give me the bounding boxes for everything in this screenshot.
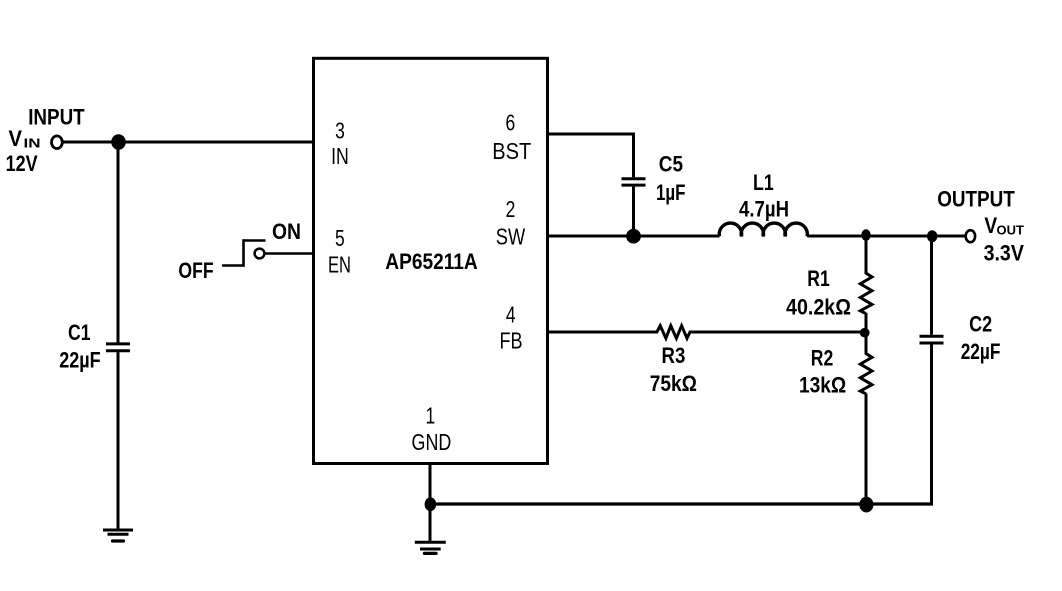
svg-text:GND: GND bbox=[412, 429, 452, 455]
switch S1 lever bbox=[222, 239, 266, 267]
resistor R2 bbox=[860, 332, 872, 504]
svg-text:L1: L1 bbox=[753, 170, 774, 195]
node INPUT VIN 12V label bbox=[6, 105, 85, 177]
C2 value label bbox=[961, 311, 1001, 364]
svg-text:IN: IN bbox=[331, 143, 349, 169]
C5 value label bbox=[656, 151, 686, 205]
resistor R3 bbox=[656, 326, 692, 339]
junction input/C1 bbox=[111, 134, 126, 150]
wire ground bus bbox=[430, 502, 933, 505]
svg-text:3: 3 bbox=[335, 117, 345, 143]
svg-text:BST: BST bbox=[492, 138, 531, 164]
pin 4 FB label bbox=[499, 302, 522, 354]
wire SW bbox=[548, 235, 720, 238]
junction C2 top bbox=[927, 230, 937, 242]
svg-text:22µF: 22µF bbox=[961, 339, 1001, 364]
svg-text:4: 4 bbox=[506, 302, 516, 328]
R1 value label bbox=[786, 266, 851, 320]
svg-text:V: V bbox=[9, 126, 23, 151]
node OUTPUT VOUT 3.3V label bbox=[937, 187, 1024, 266]
junction SW/C5 bbox=[626, 229, 641, 244]
capacitor C2 bbox=[920, 336, 944, 343]
svg-text:C5: C5 bbox=[659, 151, 683, 176]
wire C5 bottom to SW node bbox=[632, 187, 635, 236]
wire C2 top bbox=[930, 236, 933, 335]
wire EN bbox=[265, 252, 313, 255]
inductor L1 bbox=[719, 223, 807, 236]
wire input to pin IN bbox=[63, 141, 313, 144]
junction R2 bottom bbox=[859, 497, 873, 513]
C1 value label bbox=[59, 320, 100, 373]
wire BST bbox=[548, 133, 634, 178]
svg-text:R2: R2 bbox=[811, 345, 834, 370]
wire FB bbox=[548, 331, 657, 334]
svg-text:13kΩ: 13kΩ bbox=[799, 373, 846, 398]
svg-text:OUT: OUT bbox=[997, 223, 1025, 237]
wire GND pin down bbox=[429, 464, 432, 541]
svg-text:75kΩ: 75kΩ bbox=[650, 371, 697, 396]
svg-text:OFF: OFF bbox=[178, 258, 213, 283]
svg-text:C1: C1 bbox=[68, 320, 91, 345]
wire C1 bottom bbox=[117, 352, 120, 530]
ground (GND pin) bbox=[415, 542, 446, 553]
capacitor C1 bbox=[106, 344, 130, 351]
svg-text:V: V bbox=[984, 213, 997, 238]
svg-text:C2: C2 bbox=[969, 311, 992, 336]
svg-text:40.2kΩ: 40.2kΩ bbox=[786, 295, 851, 320]
capacitor C5 bbox=[622, 179, 646, 185]
svg-text:INPUT: INPUT bbox=[28, 105, 85, 130]
switch contact circle bbox=[255, 249, 265, 259]
wire R3 to FB node bbox=[691, 331, 866, 334]
input terminal bbox=[52, 136, 63, 149]
svg-text:EN: EN bbox=[328, 252, 351, 278]
pin 6 BST label bbox=[492, 109, 531, 164]
wire C2 bottom bbox=[930, 344, 933, 504]
svg-text:R1: R1 bbox=[807, 266, 830, 291]
svg-text:3.3V: 3.3V bbox=[984, 241, 1024, 266]
pin 1 GND label bbox=[412, 402, 452, 455]
svg-text:R3: R3 bbox=[662, 343, 686, 368]
svg-text:5: 5 bbox=[335, 225, 345, 251]
R2 value label bbox=[799, 345, 846, 397]
pin 5 EN label bbox=[328, 225, 351, 278]
svg-text:6: 6 bbox=[505, 109, 515, 135]
svg-text:FB: FB bbox=[499, 328, 522, 354]
svg-text:AP65211A: AP65211A bbox=[385, 249, 477, 274]
svg-text:IN: IN bbox=[24, 137, 41, 151]
svg-text:SW: SW bbox=[496, 224, 526, 250]
svg-text:1µF: 1µF bbox=[656, 180, 686, 205]
wire C1 top bbox=[117, 142, 120, 343]
L1 value label bbox=[739, 170, 789, 221]
pin 3 IN label bbox=[331, 117, 349, 169]
junction GND pin bbox=[425, 497, 437, 511]
pin 2 SW label bbox=[496, 196, 526, 250]
svg-text:1: 1 bbox=[425, 402, 435, 428]
svg-text:2: 2 bbox=[506, 196, 516, 222]
output terminal bbox=[966, 230, 975, 242]
R3 value label bbox=[650, 343, 697, 396]
resistor R1 bbox=[860, 236, 872, 332]
junction FB/R1/R2 bbox=[860, 328, 870, 338]
svg-text:22µF: 22µF bbox=[59, 348, 100, 373]
svg-text:12V: 12V bbox=[6, 151, 38, 176]
wire L1 to output terminal bbox=[807, 235, 965, 238]
junction R1 top bbox=[861, 229, 870, 241]
svg-text:4.7µH: 4.7µH bbox=[739, 197, 789, 222]
svg-text:OUTPUT: OUTPUT bbox=[937, 187, 1015, 212]
IC U1 AP65211A body bbox=[314, 58, 548, 463]
ground (C1) bbox=[103, 530, 133, 541]
svg-text:ON: ON bbox=[272, 219, 301, 244]
